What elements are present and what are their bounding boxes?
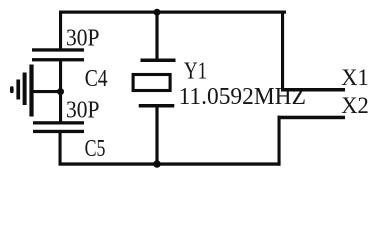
wire right vertical lower	[278, 116, 281, 166]
wire ground stub	[33, 90, 61, 93]
svg-text:X1: X1	[341, 65, 369, 91]
wire right vertical	[281, 11, 284, 92]
capacitor C4	[32, 48, 84, 51]
svg-text:30P: 30P	[66, 25, 99, 51]
wire bottom horizontal	[59, 162, 281, 165]
svg-text:C4: C4	[85, 65, 108, 92]
wire crystal stem upper	[155, 11, 158, 59]
svg-text:30P: 30P	[66, 98, 99, 124]
wire crystal stem lower	[155, 108, 158, 165]
junction dot left	[57, 88, 64, 95]
wire left vertical middle	[59, 61, 62, 122]
junction dot top	[154, 9, 161, 16]
svg-text:Y1: Y1	[184, 58, 207, 85]
wire top horizontal	[59, 11, 286, 14]
wire left vertical upper	[59, 11, 62, 50]
wire X2 stub	[278, 116, 346, 120]
svg-text:X2: X2	[341, 93, 369, 119]
ground	[10, 65, 34, 117]
crystal Y1	[141, 59, 176, 63]
wire X1 stub	[281, 88, 345, 92]
capacitor C5	[33, 121, 84, 124]
svg-text:11.0592MHZ: 11.0592MHZ	[179, 83, 306, 110]
wire left vertical lower	[59, 133, 62, 166]
junction dot bottom	[153, 160, 161, 168]
svg-text:C5: C5	[85, 135, 106, 162]
